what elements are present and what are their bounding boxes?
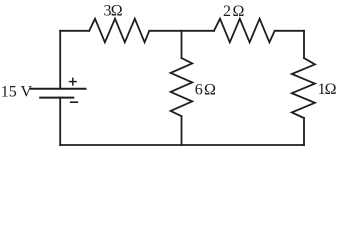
wire right vertical top lead [303,31,305,58]
svg-text:Ω: Ω [111,3,123,20]
battery minus sign [71,101,78,103]
svg-text:Ω: Ω [325,81,337,98]
wire left vertical bottom [59,98,61,145]
node junction middle top [181,31,183,58]
wire top middle segment [149,30,214,32]
svg-text:15 V: 15 V [1,84,33,101]
battery V1 top plate with label lead [31,88,86,90]
wire left vertical top [59,31,61,89]
wire top-right lead [275,30,304,32]
svg-text:Ω: Ω [204,82,216,99]
resistor R1 3-ohm zigzag [89,19,149,43]
svg-text:2: 2 [223,3,231,20]
resistor R4 1-ohm zigzag [292,58,315,118]
resistor R2 2-ohm zigzag [214,19,275,43]
wire right vertical bottom lead [303,118,305,145]
wire top-left horizontal lead [60,30,89,32]
wire bottom horizontal [60,144,304,146]
resistor R3 6-ohm zigzag [171,58,193,116]
svg-text:6: 6 [195,82,203,99]
battery plus sign [70,78,76,85]
battery V1 bottom plate [40,97,73,99]
svg-text:Ω: Ω [233,3,245,20]
wire middle vertical bottom lead [181,116,183,145]
